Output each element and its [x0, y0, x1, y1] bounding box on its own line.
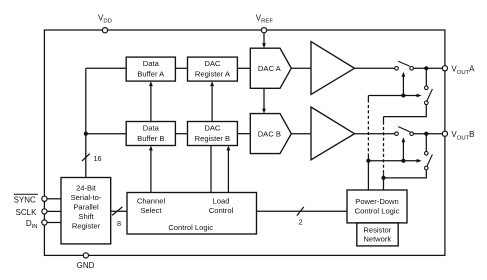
op-amp buffer B triangle: [311, 107, 355, 160]
DAC A pentagon: [250, 48, 291, 88]
svg-text:VOUTA: VOUTA: [451, 65, 475, 77]
wire shunt switch A to power-down path: [384, 105, 427, 117]
svg-text:DAC A: DAC A: [258, 64, 282, 73]
wire Data Buffer B to DAC Register B: [175, 133, 187, 135]
block Data Buffer A: [126, 57, 175, 81]
svg-text:Select: Select: [140, 206, 162, 215]
wire Data Buffer A to DAC Register A: [175, 67, 187, 69]
wire control logic to power-down control logic: [257, 210, 348, 212]
arrow control logic to buffer B: [150, 150, 152, 193]
svg-text:Data: Data: [143, 124, 160, 133]
bus slash 16: [82, 154, 90, 161]
dashed link control A down to control B junction: [367, 96, 369, 100]
wire switch B to VOUTB: [413, 133, 442, 135]
svg-text:VOUTB: VOUTB: [451, 130, 474, 142]
bus slash 2: [297, 207, 304, 216]
svg-text:SCLK: SCLK: [16, 208, 38, 217]
svg-text:VDD: VDD: [98, 13, 112, 24]
terminal VOUTB: [442, 131, 447, 136]
junction node B output: [424, 132, 428, 136]
svg-text:SYNC: SYNC: [14, 195, 36, 204]
block DAC Register A: [188, 57, 238, 81]
svg-text:2: 2: [299, 218, 303, 227]
wire DAC Register B to DAC B: [237, 133, 250, 135]
junction control B on dashed link: [366, 159, 370, 163]
wire SYNC to shift register: [47, 198, 61, 200]
wire shift register to control logic bus: [111, 210, 127, 212]
terminal VOUTA: [442, 66, 447, 71]
block Control Logic: [127, 193, 257, 235]
arrow DAC A to DAC B: [263, 88, 265, 109]
bus slash 8: [112, 207, 122, 216]
wire DAC B to amp B: [291, 133, 311, 135]
svg-text:Control Logic: Control Logic: [168, 223, 213, 232]
svg-text:8: 8: [117, 219, 121, 228]
terminal SYNC: [42, 196, 47, 201]
wire switch A to VOUTA: [413, 67, 442, 69]
terminal VREF: [261, 28, 266, 33]
svg-text:Buffer B: Buffer B: [137, 134, 164, 143]
wire bus to Data Buffer B: [86, 133, 126, 135]
junction node A output: [424, 66, 428, 70]
svg-text:Register B: Register B: [195, 134, 230, 143]
svg-text:Parallel: Parallel: [73, 203, 99, 212]
wire bus to Data Buffer A: [86, 67, 126, 69]
block Data Buffer B: [126, 122, 175, 146]
wire register B to control logic: [210, 146, 212, 193]
wire DAC A to amp A: [291, 67, 311, 69]
wire DIN to shift register: [47, 222, 61, 224]
arrow control B to series switch B: [402, 142, 404, 161]
vertical data bus from shift register: [85, 68, 87, 177]
outer boundary box: [44, 30, 445, 255]
shunt switch A: [425, 86, 429, 90]
wire amp B to switch B: [355, 133, 395, 135]
arrow load control to register B: [227, 150, 229, 193]
svg-text:DAC: DAC: [204, 124, 221, 133]
svg-text:Control Logic: Control Logic: [355, 207, 400, 216]
junction control A: [401, 93, 405, 97]
svg-text:16: 16: [94, 154, 102, 163]
wire SCLK to shift register: [47, 210, 61, 212]
svg-text:DAC B: DAC B: [258, 130, 281, 139]
junction shunt path B: [381, 176, 385, 180]
series switch A: [395, 67, 399, 71]
wire shunt switch B to power-down path: [384, 170, 427, 178]
wire junction to shunt switch B: [425, 134, 427, 152]
svg-text:Load: Load: [213, 196, 230, 205]
svg-text:Channel: Channel: [137, 196, 166, 205]
junction control B: [401, 159, 405, 163]
svg-text:Resistor: Resistor: [363, 225, 391, 234]
junction bus to buffer B: [84, 132, 88, 136]
svg-text:24-Bit: 24-Bit: [76, 184, 97, 193]
svg-text:Data: Data: [143, 59, 160, 68]
arrow control A to series switch A: [402, 76, 404, 95]
power-down control line B: [368, 160, 417, 162]
block Resistor Network: [357, 223, 398, 246]
op-amp buffer A triangle: [311, 42, 355, 95]
svg-text:Register A: Register A: [195, 69, 231, 78]
wire amp A to switch A: [355, 67, 395, 69]
power-down control line A: [368, 95, 417, 97]
block DAC Register B: [188, 122, 238, 146]
svg-text:Network: Network: [363, 235, 391, 244]
series switch B: [395, 132, 399, 136]
svg-text:Shift: Shift: [78, 212, 94, 221]
arrow buffer B top to buffer A: [150, 86, 152, 122]
terminal GND: [83, 253, 88, 258]
svg-text:Register: Register: [72, 222, 101, 231]
arrow register B top to register A: [211, 86, 213, 122]
block 24-Bit Serial-to-Parallel Shift Register: [61, 178, 111, 244]
DAC B pentagon: [250, 114, 291, 154]
terminal VDD: [102, 28, 107, 33]
dashed link shunt path A down to shunt path B junction: [383, 117, 385, 122]
block Power-Down Control Logic: [347, 190, 407, 223]
wire junction to shunt switch A: [425, 68, 427, 86]
svg-text:Buffer A: Buffer A: [137, 69, 165, 78]
svg-text:DIN: DIN: [26, 219, 38, 230]
svg-text:Control: Control: [209, 206, 234, 215]
shunt switch B: [425, 152, 429, 156]
terminal DIN: [42, 220, 47, 225]
terminal SCLK: [42, 209, 47, 214]
svg-text:VREF: VREF: [256, 13, 274, 24]
svg-text:Serial-to-: Serial-to-: [71, 193, 102, 202]
svg-text:GND: GND: [77, 261, 95, 270]
arrow VREF to DAC A: [263, 33, 265, 44]
svg-text:DAC: DAC: [204, 59, 221, 68]
wire DAC Register A to DAC A: [237, 67, 250, 69]
svg-text:Power-Down: Power-Down: [355, 197, 398, 206]
